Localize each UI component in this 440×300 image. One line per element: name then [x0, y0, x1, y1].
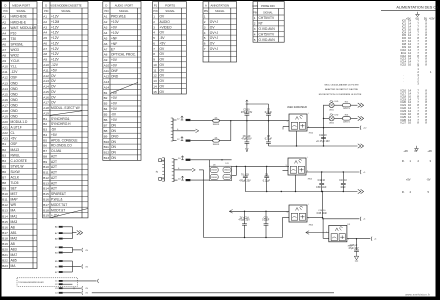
svg-text:1: 1 [254, 16, 256, 20]
svg-text:A2T: A2T [51, 171, 57, 175]
svg-text:A22: A22 [2, 131, 8, 135]
svg-text:B5: B5 [43, 138, 47, 142]
svg-text:SIGNAL: SIGNAL [263, 11, 273, 15]
svg-text:B3: B3 [43, 128, 47, 132]
svg-text:OV+J: OV+J [210, 36, 219, 40]
svg-text:B15: B15 [43, 192, 49, 196]
fuse F2 [186, 140, 191, 142]
svg-text:A4: A4 [104, 31, 108, 35]
0V bus from transformer centre tap [199, 169, 204, 171]
svg-text:WAIT. MODULAR: WAIT. MODULAR [11, 26, 37, 30]
svg-text:B16: B16 [43, 198, 49, 202]
svg-text:B13: B13 [2, 209, 8, 213]
svg-text:SLKW: SLKW [11, 170, 21, 174]
svg-text:R15: R15 [345, 102, 348, 104]
capacitor C13 col [342, 172, 344, 183]
svg-text:A6: A6 [43, 42, 47, 46]
svg-text:OV: OV [51, 95, 57, 99]
IC1 ground stub [296, 131, 298, 146]
svg-text:A4: A4 [43, 31, 47, 35]
svg-text:MST: MST [11, 192, 18, 196]
svg-text:+0V: +0V [111, 26, 118, 30]
svg-text:1kW 1%: 1kW 1% [343, 121, 350, 123]
svg-text:7: 7 [204, 47, 206, 51]
svg-text:0.68 10nF: 0.68 10nF [317, 213, 328, 215]
svg-text:AB5: AB5 [11, 259, 17, 263]
svg-text:A2T: A2T [51, 187, 57, 191]
svg-text:A11: A11 [104, 69, 110, 73]
transformer T1 upper secondary winding [172, 118, 174, 141]
svg-text:7: 7 [153, 47, 155, 51]
svg-text:WIO2: WIO2 [11, 54, 19, 58]
svg-text:B10: B10 [104, 140, 110, 144]
svg-text:B19: B19 [43, 214, 49, 218]
circuit1 top rail [247, 103, 269, 105]
svg-text:OV: OV [51, 101, 57, 105]
svg-text:B17: B17 [2, 231, 8, 235]
svg-text:1N4001: 1N4001 [213, 144, 220, 146]
svg-text:AVEC RADIATEUR: AVEC RADIATEUR [287, 106, 307, 109]
svg-text:+5V: +5V [160, 41, 167, 45]
svg-text:PRD.W1&: PRD.W1& [111, 15, 127, 19]
svg-text:+12V: +12V [51, 58, 60, 62]
svg-text:0V: 0V [414, 149, 417, 153]
svg-text:OV: OV [160, 52, 166, 56]
svg-text:B12: B12 [2, 203, 8, 207]
svg-text:B1: B1 [104, 91, 108, 95]
svg-text:ON: ON [111, 140, 117, 144]
transformer T1 lower secondary winding [173, 159, 175, 182]
svg-text:HWCHE-E: HWCHE-E [11, 20, 27, 24]
svg-text:B18: B18 [43, 208, 49, 212]
svg-text:B6: B6 [104, 118, 108, 122]
connector table J3 AUDIO PORT [103, 2, 141, 161]
svg-text:D: D [105, 3, 107, 7]
svg-text:CHT5V/TV: CHT5V/TV [259, 33, 276, 37]
svg-text:WR: WR [11, 203, 17, 207]
svg-text:OV: OV [51, 85, 57, 89]
svg-text:MA1: MA1 [11, 214, 18, 218]
svg-text:OV: OV [210, 25, 216, 29]
svg-text:A8: A8 [104, 53, 108, 57]
svg-text:MA2: MA2 [11, 237, 18, 241]
svg-text:A11: A11 [2, 70, 8, 74]
svg-text:O.VID.AVN: O.VID.AVN [259, 27, 276, 31]
svg-text:ON: ON [111, 145, 117, 149]
table J2 crossed-out last row diagonal [50, 209, 88, 218]
svg-text:A2: A2 [2, 20, 6, 24]
svg-text:-12V: -12V [51, 63, 59, 67]
svg-text:B7: B7 [2, 176, 6, 180]
svg-text:14: 14 [153, 84, 157, 88]
svg-text:ON: ON [111, 151, 117, 155]
svg-text:2: 2 [254, 22, 256, 26]
svg-text:LED5: LED5 [329, 110, 334, 112]
svg-text:B23: B23 [2, 264, 8, 268]
svg-text:HWCHE0E: HWCHE0E [11, 15, 28, 19]
svg-text:+NF: +NF [111, 36, 117, 40]
svg-text:A5: A5 [2, 37, 6, 41]
fuse F3 [186, 159, 191, 161]
svg-text:B9: B9 [2, 187, 6, 191]
long 0V line bottom [92, 292, 334, 294]
svg-text:OND: OND [11, 109, 19, 113]
svg-text:5: 5 [204, 36, 206, 40]
svg-text:OSF: OSF [11, 142, 18, 146]
regulator IC RG4 [329, 225, 347, 241]
svg-text:470µF 16V: 470µF 16V [241, 112, 253, 114]
svg-text:C16 10: C16 10 [318, 210, 326, 212]
svg-text:MEDIA PORT: MEDIA PORT [12, 3, 30, 7]
capacitor C8 [268, 121, 270, 142]
svg-text:B1: B1 [43, 117, 47, 121]
svg-text:MAP: MAP [11, 198, 18, 202]
svg-text:A15: A15 [2, 92, 8, 96]
svg-text:C12 10: C12 10 [319, 135, 327, 137]
bridge input riser [208, 160, 210, 166]
svg-text:B11: B11 [104, 145, 110, 149]
svg-text:A3: A3 [2, 26, 6, 30]
svg-text:A9: A9 [104, 58, 108, 62]
svg-text:ONF: ONF [111, 69, 118, 73]
diode D12 [223, 174, 231, 179]
svg-text:A16: A16 [43, 95, 49, 99]
svg-text:6: 6 [153, 41, 155, 45]
svg-text:LED: LED [335, 101, 339, 103]
capacitor C14 col [244, 211, 246, 224]
svg-text:Y.LL: Y.LL [11, 65, 17, 69]
svg-text:B2: B2 [2, 148, 6, 152]
test point arrow lower tap 1 [182, 156, 184, 160]
svg-text:B4: B4 [104, 107, 108, 111]
svg-text:MODT.&T: MODT.&T [51, 208, 65, 212]
svg-text:B8: B8 [2, 181, 6, 185]
svg-text:A18: A18 [43, 106, 49, 110]
svg-text:OND: OND [111, 75, 119, 79]
dashed annotation box TOUCHE A DEVERROUILLER [17, 278, 78, 287]
test point arrow on upper tap 1 [181, 116, 183, 120]
svg-text:P10: P10 [11, 31, 17, 35]
LED indicator row 1 (LED5 R15) [324, 104, 330, 106]
connector table J5 ANNOTATION [203, 2, 237, 63]
svg-text:OND: OND [11, 81, 19, 85]
svg-text:D11: D11 [225, 163, 228, 165]
LED bus vertical [323, 105, 325, 146]
svg-text:OV: OV [160, 47, 166, 51]
fuse F1 [186, 119, 191, 121]
capacitor C7 [268, 104, 270, 114]
elbow wire W3 to bridge lower output [236, 166, 238, 175]
svg-text:OV+J: OV+J [210, 20, 219, 24]
IC1 lower-left stub [283, 126, 289, 128]
svg-text:AUDIO / PORT: AUDIO / PORT [115, 3, 134, 7]
svg-text:B13: B13 [43, 181, 49, 185]
svg-text:OV: OV [160, 63, 166, 67]
svg-text:C.LOOSTE: C.LOOSTE [11, 159, 28, 163]
svg-text:A9: A9 [43, 58, 47, 62]
svg-text:1N4001: 1N4001 [213, 124, 220, 126]
svg-text:B15: B15 [2, 220, 8, 224]
circuit2 ground rail W4 [245, 191, 357, 193]
rectifier output wire to IC2 [232, 165, 289, 167]
svg-text:A1: A1 [104, 15, 108, 19]
svg-text:ADAPTER DE PART ET D'AUTRE: ADAPTER DE PART ET D'AUTRE [325, 88, 358, 91]
rectifier bridge box [209, 166, 231, 180]
svg-text:2: 2 [153, 20, 155, 24]
svg-text:B10: B10 [2, 192, 8, 196]
svg-text:13: 13 [153, 79, 157, 83]
+5V wire to terminal [323, 218, 360, 220]
svg-text:-5V: -5V [51, 128, 57, 132]
svg-text:B11: B11 [43, 171, 49, 175]
svg-text:0.68 10nF: 0.68 10nF [316, 187, 327, 189]
svg-text:MA: MA [11, 209, 17, 213]
svg-text:B22: B22 [2, 259, 8, 263]
svg-text:AB1: AB1 [11, 231, 17, 235]
svg-text:CON: CON [252, 4, 258, 8]
table J3 crossed-out rows diagonal [110, 83, 138, 94]
svg-text:4: 4 [254, 33, 256, 37]
svg-text:OND: OND [11, 98, 19, 102]
svg-text:B19: B19 [2, 242, 8, 246]
svg-text:47µF 25V: 47µF 25V [241, 139, 251, 141]
vertical link W4 to IC3 output [322, 192, 324, 218]
capacitor C11 col [321, 172, 323, 183]
diode D11 [223, 167, 231, 172]
svg-text:A13: A13 [43, 79, 49, 83]
svg-text:A9: A9 [2, 59, 6, 63]
svg-text:A13: A13 [104, 80, 110, 84]
svg-text:+0V: +0V [111, 64, 118, 68]
svg-text:+12V: +12V [51, 42, 60, 46]
svg-text:+10V: +10V [111, 20, 120, 24]
svg-text:A2T: A2T [51, 181, 57, 185]
svg-text:A5: A5 [43, 36, 47, 40]
svg-text:3: 3 [153, 25, 155, 29]
diode D5 on top wire [213, 119, 220, 122]
svg-text:OV: OV [51, 74, 57, 78]
capacitor C12 on LED bus [321, 136, 326, 138]
svg-text:B5: B5 [104, 113, 108, 117]
svg-text:A21: A21 [2, 126, 8, 130]
svg-text:A3: A3 [43, 25, 47, 29]
svg-text:OV: OV [160, 31, 166, 35]
svg-text:TLD5: TLD5 [11, 181, 19, 185]
svg-text:+0V: +0V [111, 96, 118, 100]
svg-text:LED: LED [335, 114, 339, 116]
svg-text:B14: B14 [2, 214, 8, 218]
svg-text:OND: OND [11, 103, 19, 107]
svg-text:ON: ON [111, 123, 117, 127]
capacitor C9 col [266, 166, 268, 176]
svg-text:OV: OV [160, 90, 166, 94]
svg-text:1N4005: 1N4005 [211, 177, 217, 179]
svg-text:AB3: AB3 [11, 248, 17, 252]
svg-text:+0V: +0V [111, 102, 118, 106]
IC2 ground stub [295, 175, 297, 192]
svg-text:B11: B11 [2, 198, 8, 202]
svg-text:T30: T30 [11, 37, 17, 41]
svg-text:CHT5V/TV: CHT5V/TV [259, 16, 276, 20]
svg-text:+12V: +12V [51, 36, 60, 40]
svg-text:+5V: +5V [406, 178, 411, 182]
svg-text:4: 4 [153, 31, 155, 35]
svg-text:A.UT1F: A.UT1F [11, 126, 22, 130]
svg-text:10µF: 10µF [340, 187, 346, 189]
svg-text:B2: B2 [43, 122, 47, 126]
svg-text:PIN: PIN [204, 10, 208, 13]
svg-text:0.22µF: 0.22µF [265, 112, 273, 114]
svg-text:MA3: MA3 [11, 220, 18, 224]
svg-text:OV: OV [51, 90, 57, 94]
svg-text:B16: B16 [2, 225, 8, 229]
svg-text:PIN: PIN [253, 12, 257, 15]
svg-text:5: 5 [254, 38, 256, 42]
svg-text:LED6: LED6 [329, 123, 334, 125]
svg-text:AB: AB [11, 225, 15, 229]
svg-text:www.exelvision.fr: www.exelvision.fr [405, 292, 430, 296]
upper secondary tap stubs and labels [173, 119, 177, 121]
svg-text:EN RECEPTION OU DERRIERE LE FI: EN RECEPTION OU DERRIERE LE FILTRE [319, 94, 362, 96]
svg-text:-12V: -12V [11, 70, 19, 74]
svg-text:ALIMENTATION DES C.I.: ALIMENTATION DES C.I. [396, 6, 439, 10]
svg-text:B12: B12 [43, 176, 49, 180]
transformer T1 primary winding [163, 158, 165, 181]
svg-text:O.LMA: O.LMA [51, 149, 62, 153]
svg-text:+12V: +12V [51, 47, 60, 51]
svg-text:B4: B4 [43, 133, 47, 137]
svg-text:B21: B21 [2, 253, 8, 257]
svg-text:5: 5 [153, 36, 155, 40]
svg-text:SYNCHRO&: SYNCHRO& [51, 117, 70, 121]
svg-text:SET: SET [11, 187, 17, 191]
svg-text:B1: B1 [2, 142, 6, 146]
svg-text:A10: A10 [43, 63, 49, 67]
svg-text:P.WLL&: P.WLL& [51, 198, 63, 202]
svg-text:OND: OND [11, 92, 19, 96]
svg-text:MODUL1.D: MODUL1.D [11, 120, 28, 124]
svg-text:-5V: -5V [426, 178, 430, 182]
+12V output terminal [359, 126, 362, 130]
IC4 output wire [347, 238, 370, 240]
svg-text:A17: A17 [43, 101, 49, 105]
svg-text:B9: B9 [104, 134, 108, 138]
svg-text:1: 1 [286, 212, 287, 214]
svg-text:A7: A7 [43, 47, 47, 51]
svg-text:+C 47µF 16V: +C 47µF 16V [316, 141, 330, 143]
svg-text:+12V: +12V [51, 31, 60, 35]
svg-text:A10: A10 [104, 64, 110, 68]
svg-text:B8: B8 [104, 129, 108, 133]
svg-text:R.: R. [402, 190, 405, 194]
svg-text:9: 9 [153, 58, 155, 62]
lower secondary taps [174, 159, 178, 161]
svg-text:OND: OND [11, 87, 19, 91]
svg-text:MA7: MA7 [11, 253, 18, 257]
svg-text:OV: OV [51, 79, 57, 83]
svg-text:E7: E7 [111, 47, 115, 51]
svg-text:4,5V: 4,5V [429, 16, 435, 20]
svg-text:B2: B2 [104, 96, 108, 100]
svg-text:WIO3: WIO3 [11, 48, 19, 52]
svg-text:1: 1 [153, 15, 155, 19]
svg-text:MA13: MA13 [11, 148, 20, 152]
ground symbol under C18 [354, 256, 358, 260]
svg-text:15: 15 [153, 90, 157, 94]
regulator IC RG2 [288, 158, 306, 175]
svg-text:470µF 25V: 470µF 25V [238, 220, 250, 222]
svg-text:47µF 16V: 47µF 16V [348, 248, 358, 250]
svg-text:6: 6 [204, 42, 206, 46]
svg-text:B3: B3 [2, 153, 6, 157]
capacitor C18 with ground [356, 239, 358, 250]
svg-text:0.22µF: 0.22µF [265, 139, 273, 141]
IC4 input arrow terminal [306, 231, 309, 235]
svg-text:PRISE DIN: PRISE DIN [261, 4, 274, 8]
svg-text:A12: A12 [43, 74, 49, 78]
svg-text:A13: A13 [2, 81, 8, 85]
svg-text:A17: A17 [2, 103, 8, 107]
svg-text:ON: ON [111, 129, 117, 133]
power table footer ground symbol [416, 146, 418, 149]
IC3 output wire [307, 217, 323, 219]
svg-text:A7: A7 [104, 47, 108, 51]
svg-text:MODUL. EJECT W/: MODUL. EJECT W/ [51, 106, 80, 110]
svg-text:+10V: +10V [111, 31, 120, 35]
svg-text:PIN: PIN [153, 10, 157, 13]
svg-text:A1: A1 [43, 15, 47, 19]
circuit3 input arrow terminal [229, 210, 232, 214]
svg-text:NT: NT [259, 22, 263, 26]
svg-text:OV: OV [160, 79, 166, 83]
svg-text:A2T: A2T [51, 176, 57, 180]
svg-text:SYNCHRO.H: SYNCHRO.H [51, 122, 71, 126]
svg-text:A11: A11 [43, 68, 49, 72]
svg-text:-0V: -0V [111, 113, 117, 117]
svg-text:A18: A18 [2, 109, 8, 113]
svg-text:+0V: +0V [403, 149, 408, 153]
svg-text:B7: B7 [43, 149, 47, 153]
svg-text:3: 3 [204, 25, 206, 29]
table J2 crossed-out empty row diagonal [50, 111, 82, 116]
svg-text:A20: A20 [2, 120, 8, 124]
svg-text:OPTICAL PROC.: OPTICAL PROC. [111, 53, 136, 57]
svg-text:MODT.T&T: MODT.T&T [51, 203, 67, 207]
svg-text:B20: B20 [2, 248, 8, 252]
svg-text:B10: B10 [43, 165, 49, 169]
svg-text:8: 8 [153, 52, 155, 56]
svg-text:4: 4 [204, 31, 206, 35]
svg-text:B18: B18 [2, 237, 8, 241]
svg-text:CL: CL [11, 131, 15, 135]
svg-text:A2T: A2T [51, 160, 57, 164]
svg-text:A7: A7 [2, 48, 6, 52]
svg-text:A12: A12 [2, 76, 8, 80]
svg-text:+5V: +5V [51, 133, 58, 137]
svg-text:D8: D8 [213, 165, 215, 167]
+V arrow above C5 [246, 100, 248, 104]
fuse F4 [186, 179, 191, 181]
svg-text:AB: AB [11, 242, 15, 246]
IC1 output wire [307, 127, 359, 129]
svg-text:+12M: +12M [51, 20, 60, 24]
svg-text:A2: A2 [104, 20, 108, 24]
connector table J1 MEDIA PORT [2, 2, 38, 269]
svg-text:+0V: +0V [111, 58, 118, 62]
svg-text:ACLK: ACLK [11, 176, 20, 180]
svg-text:SPKSNL: SPKSNL [11, 43, 24, 47]
svg-text:B17: B17 [43, 203, 49, 207]
